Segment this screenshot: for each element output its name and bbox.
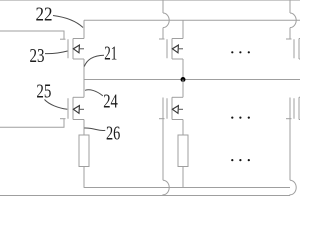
node junction dot cell2 on mid bus bbox=[181, 77, 186, 82]
leader line 22 bbox=[53, 16, 83, 28]
wire rail cell2 upper bbox=[162, 0, 164, 13]
svg-text:22: 22 bbox=[36, 4, 53, 25]
transistor lower cell3 (partial at edge) bbox=[286, 97, 300, 119]
resistor R26 (left cell) bbox=[79, 135, 89, 188]
leader line 21 bbox=[84, 55, 104, 66]
wire top edge border bbox=[0, 0, 300, 2]
hop over top bus at rail3 bbox=[290, 13, 296, 28]
wire bottom bus bbox=[84, 187, 290, 189]
transistor Q24 lower-left MOSFET bbox=[60, 80, 84, 136]
ellipsis dots middle bbox=[231, 117, 250, 119]
wire rail cell3 lower bbox=[289, 98, 291, 181]
ellipsis dots upper bbox=[231, 51, 250, 53]
transistor Q21 upper-left MOSFET bbox=[60, 20, 84, 79]
wire gate feed upper-left (to transistor 21 gate) bbox=[0, 31, 64, 39]
wire gate feed lower-left (to transistor 24 gate) bbox=[0, 119, 64, 128]
hop over bottom bus at rail3 bbox=[290, 180, 296, 195]
wire rail cell3 upper lower part bbox=[289, 28, 291, 39]
wire rail cell2 lower bbox=[162, 98, 164, 181]
svg-text:21: 21 bbox=[104, 43, 117, 64]
svg-text:25: 25 bbox=[36, 82, 51, 103]
transistor upper cell3 (partial at edge) bbox=[286, 39, 300, 60]
ellipsis dots lower bbox=[231, 159, 250, 161]
leader line 23 bbox=[45, 51, 68, 54]
wire top bus bbox=[84, 19, 300, 21]
leader line 26 bbox=[84, 128, 105, 131]
leader line 25 bbox=[45, 100, 68, 110]
transistor upper cell2 bbox=[159, 20, 183, 79]
resistor cell2 bbox=[178, 135, 188, 188]
transistor lower cell2 bbox=[159, 80, 183, 136]
svg-text:26: 26 bbox=[106, 123, 120, 144]
svg-text:24: 24 bbox=[103, 91, 118, 112]
wire bottom net line bbox=[0, 195, 290, 197]
svg-text:23: 23 bbox=[30, 46, 45, 67]
leader line 24 bbox=[85, 90, 103, 96]
hop over bottom bus at rail2 bbox=[163, 180, 169, 195]
wire rail cell2 upper lower part bbox=[162, 28, 164, 39]
wire mid bus bbox=[84, 79, 300, 81]
wire rail cell3 upper bbox=[289, 0, 291, 13]
hop over top bus at rail2 bbox=[163, 13, 169, 28]
